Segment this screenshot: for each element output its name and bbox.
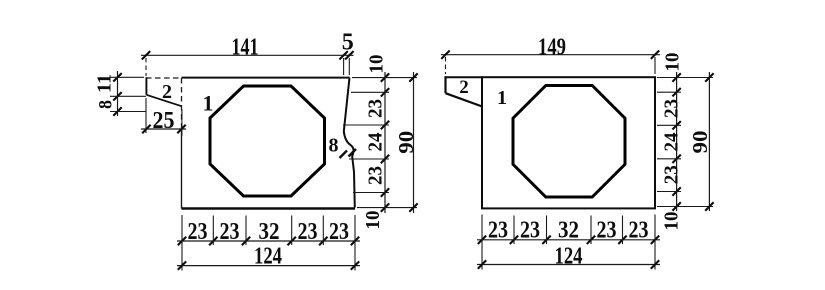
svg-text:23: 23 — [220, 219, 240, 245]
svg-text:10: 10 — [362, 211, 384, 230]
top edge over wing — [446, 76, 483, 78]
svg-text:23: 23 — [661, 165, 683, 184]
svg-text:32: 32 — [558, 218, 579, 244]
extension lines for 11/8 — [110, 76, 144, 78]
left 11/8 dimension line — [117, 71, 119, 116]
wing bottom slant — [446, 93, 483, 106]
slab rectangle outline — [482, 77, 655, 208]
dimension 141 line — [141, 54, 344, 56]
dimension 25 line — [141, 128, 186, 130]
wing left edge — [444, 76, 446, 93]
svg-text:8: 8 — [329, 135, 339, 157]
svg-text:23: 23 — [597, 218, 617, 244]
dimension 90 line — [708, 72, 710, 211]
svg-text:10: 10 — [662, 53, 684, 72]
region 2 dashed right edge — [181, 78, 183, 127]
dimension 141 extension lines — [145, 58, 147, 76]
bottom extension lines — [181, 215, 183, 271]
svg-text:23: 23 — [298, 219, 318, 245]
svg-text:25: 25 — [153, 108, 175, 134]
right chain dimension line — [676, 72, 678, 211]
svg-text:124: 124 — [254, 244, 282, 270]
svg-text:8: 8 — [96, 100, 117, 109]
svg-text:2: 2 — [459, 77, 469, 98]
bottom extension lines — [481, 215, 483, 270]
svg-text:2: 2 — [162, 81, 172, 103]
svg-text:141: 141 — [232, 35, 259, 61]
region 2 left edge — [145, 77, 147, 95]
octagonal void 1 — [210, 86, 325, 196]
svg-text:23: 23 — [629, 218, 649, 244]
dimension 149 line — [441, 54, 660, 56]
dimension 90 line — [413, 72, 415, 213]
dimension 5 line — [344, 54, 354, 56]
right chain extension lines — [352, 77, 417, 79]
right chain extension lines — [657, 77, 713, 79]
svg-text:23: 23 — [661, 99, 683, 118]
top slab edge (solid part) — [182, 77, 350, 79]
dimension 149 extension lines — [445, 57, 447, 74]
left edge of body — [181, 127, 183, 209]
svg-text:1: 1 — [203, 91, 214, 116]
key dim slashes — [340, 151, 348, 159]
bottom edge — [182, 207, 356, 210]
right chain dimension line — [384, 72, 386, 213]
svg-text:23: 23 — [188, 219, 208, 245]
right edge joint profile with shear key — [344, 78, 355, 208]
dimension 124 line — [177, 265, 360, 267]
dashed top edge over joint region 2 — [146, 77, 182, 79]
svg-text:23: 23 — [520, 218, 540, 244]
svg-text:24: 24 — [661, 133, 683, 152]
bottom chain dimension line — [477, 239, 660, 241]
svg-text:1: 1 — [497, 87, 507, 109]
svg-text:10: 10 — [366, 55, 388, 74]
svg-text:32: 32 — [259, 219, 280, 245]
svg-text:23: 23 — [329, 219, 349, 245]
svg-text:149: 149 — [538, 35, 566, 61]
svg-text:90: 90 — [394, 131, 418, 154]
svg-text:23: 23 — [365, 166, 387, 185]
bottom chain dimension line — [177, 240, 360, 242]
dimension 5 extension line — [348, 58, 350, 75]
dimension 124 line — [477, 264, 660, 266]
svg-text:10: 10 — [661, 212, 683, 231]
region 2 bottom slant — [146, 95, 181, 106]
svg-text:24: 24 — [365, 133, 387, 152]
svg-text:124: 124 — [555, 244, 583, 270]
svg-text:90: 90 — [688, 131, 712, 154]
svg-text:5: 5 — [342, 30, 354, 56]
svg-text:11: 11 — [94, 74, 116, 93]
svg-text:23: 23 — [365, 99, 387, 118]
dimension 25 extension lines — [145, 98, 147, 133]
octagonal void 1 — [513, 86, 625, 198]
svg-text:23: 23 — [488, 218, 508, 244]
